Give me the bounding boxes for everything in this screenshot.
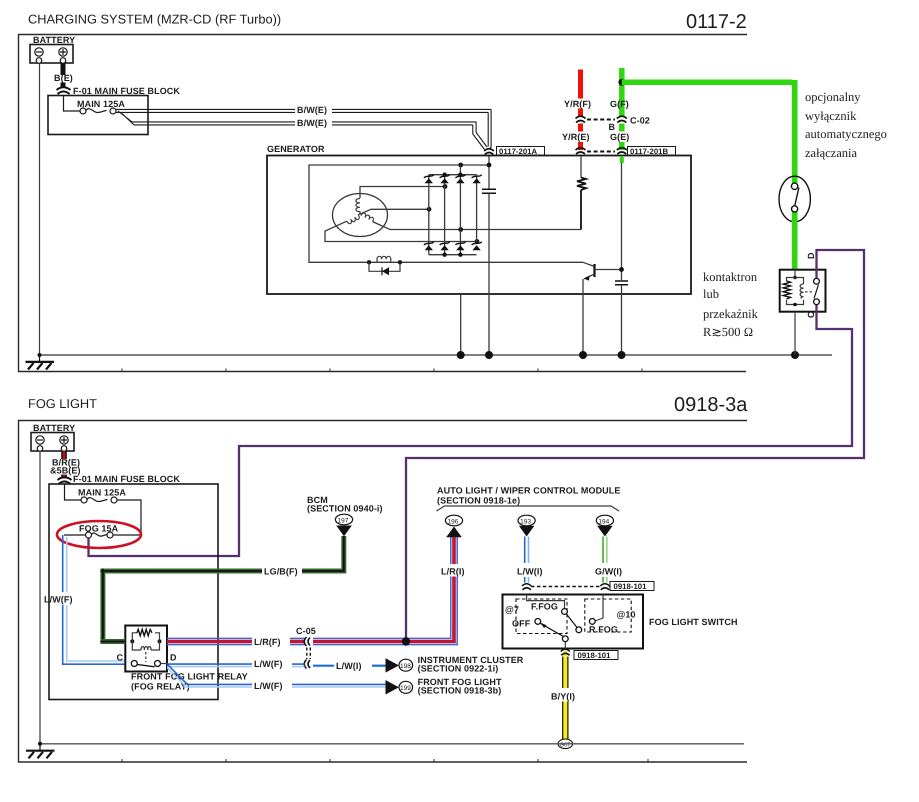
relay coil xyxy=(800,284,803,299)
label box 0117-201A xyxy=(497,147,545,156)
rotor field coil on inner bottom line xyxy=(367,260,371,264)
svg-text:B/W(E): B/W(E) xyxy=(297,118,327,128)
instrument cluster triangle xyxy=(386,658,399,672)
green wire vertical to switch ellipse xyxy=(792,80,798,183)
svg-text:0117-2: 0117-2 xyxy=(686,11,747,33)
fuse block box (fog) xyxy=(49,484,218,700)
svg-text:L/W(I): L/W(I) xyxy=(336,661,362,671)
relay contacts (kontaktron) xyxy=(814,278,820,284)
fog relay box xyxy=(125,626,167,672)
svg-text:(SECTION 0940-i): (SECTION 0940-i) xyxy=(307,504,383,514)
svg-text:193: 193 xyxy=(520,519,531,526)
svg-text:F-01 MAIN FUSE BLOCK: F-01 MAIN FUSE BLOCK xyxy=(73,474,180,484)
wire L/W(F) from relay D to chevron xyxy=(167,663,252,665)
chevron into switch (blue) xyxy=(522,584,531,590)
svg-text:G/W(I): G/W(I) xyxy=(595,567,622,577)
bridge diodes bottom row xyxy=(425,245,481,250)
dashed link C-02 xyxy=(587,119,615,121)
wire B/Y yellow xyxy=(562,657,568,689)
svg-text:@10: @10 xyxy=(617,610,636,620)
ground G07 xyxy=(558,739,573,749)
svg-text:FOG 15A: FOG 15A xyxy=(79,524,119,534)
wire B/W(E) upper turn down to 0117-201A xyxy=(488,109,491,148)
svg-text:MAIN 125A: MAIN 125A xyxy=(78,488,126,498)
relay output wire to ground bus xyxy=(794,312,796,355)
charging section frame xyxy=(19,35,748,372)
svg-text:(FOG RELAY): (FOG RELAY) xyxy=(131,682,190,692)
switch internal wires xyxy=(527,595,565,609)
module connector triangle up 196 xyxy=(446,527,462,538)
fog relay dashed link xyxy=(145,652,147,662)
frame ticks fog xyxy=(122,759,648,762)
svg-text:194: 194 xyxy=(598,519,609,526)
frame ticks charging xyxy=(122,369,642,372)
svg-text:(SECTION 0918-1e): (SECTION 0918-1e) xyxy=(437,496,520,506)
connector chevrons F-01 (fog) xyxy=(58,477,72,484)
svg-text:AUTO LIGHT / WIPER CONTROL MOD: AUTO LIGHT / WIPER CONTROL MODULE xyxy=(437,486,620,496)
switch ellipse (opcjonalny wylacznik) xyxy=(779,176,810,222)
svg-text:D: D xyxy=(806,252,816,259)
yellow chevron connector xyxy=(563,651,567,656)
connector chevron 201B right xyxy=(617,148,627,154)
wire B(E) thick black from battery + xyxy=(61,64,66,76)
stator coil top xyxy=(356,199,360,215)
wire L/W(I) to instrument cluster xyxy=(313,665,334,667)
front fog light triangle xyxy=(386,680,399,694)
wire from FOG fuse left to L/W xyxy=(64,534,86,536)
svg-text:L/R(I): L/R(I) xyxy=(441,567,465,577)
G green wire column xyxy=(619,68,625,117)
svg-text:196: 196 xyxy=(448,519,459,526)
fog relay resistor (horizontal zigzag) xyxy=(137,629,152,635)
G(E) line in generator xyxy=(621,156,623,280)
switch contacts xyxy=(562,609,568,615)
dashed boxes inside switch xyxy=(516,599,567,634)
Y/R red wire column xyxy=(578,70,583,99)
resistor R in generator xyxy=(580,156,582,178)
svg-text:L/W(F): L/W(F) xyxy=(254,659,283,669)
svg-text:199: 199 xyxy=(400,685,411,692)
capacitor C2 xyxy=(615,281,628,285)
battery negative wire down (fog) xyxy=(39,452,41,744)
fog section frame xyxy=(19,421,748,763)
phase wire 1 xyxy=(360,187,445,199)
svg-text:załączania: załączania xyxy=(805,146,857,160)
svg-text:R≳500 Ω: R≳500 Ω xyxy=(703,325,753,339)
chevron on L/W(F) row xyxy=(304,660,310,669)
svg-text:LG/B(F): LG/B(F) xyxy=(264,567,298,577)
relay contact dashes xyxy=(805,291,814,293)
green node dot xyxy=(618,79,625,86)
wire L/R(I) up to module: corner xyxy=(448,537,457,645)
module connector circle 194 xyxy=(596,515,613,526)
stator coil left xyxy=(347,215,360,225)
phase wire 2 xyxy=(360,209,429,214)
label box 0117-201B xyxy=(628,147,676,156)
junction dot purple to L/R xyxy=(402,637,410,645)
svg-text:0918-3a: 0918-3a xyxy=(674,394,748,416)
svg-text:C: C xyxy=(806,311,816,318)
stator coil right xyxy=(361,212,374,222)
svg-text:OFF: OFF xyxy=(512,619,531,629)
green wire horizontal to switch xyxy=(622,80,792,86)
kontaktron relay box xyxy=(780,270,826,312)
relay coil loop xyxy=(787,278,804,305)
wire B/W(E) upper double line xyxy=(116,109,491,112)
stator circle xyxy=(333,194,388,237)
svg-text:opcjonalny: opcjonalny xyxy=(805,90,861,104)
svg-text:B(E): B(E) xyxy=(54,73,73,83)
node: B+ drop into generator xyxy=(488,156,490,189)
svg-text:C: C xyxy=(117,653,124,663)
wire B/R(E) black-red from battery xyxy=(61,452,67,460)
svg-text:automatycznego: automatycznego xyxy=(805,127,887,141)
capacitor C on B+ line xyxy=(482,189,496,193)
svg-text:MAIN 125A: MAIN 125A xyxy=(77,99,125,109)
green wire from switch to relay xyxy=(792,222,798,270)
wires from generator down to ground bus xyxy=(461,293,622,355)
fog relay coil (horizontal arcs) xyxy=(141,647,151,650)
fog relay nodes xyxy=(130,639,134,643)
svg-text:FRONT FOG LIGHT RELAY: FRONT FOG LIGHT RELAY xyxy=(131,672,248,682)
BCM connector circle 197 xyxy=(335,514,352,525)
G(E) stub into generator xyxy=(620,156,624,163)
svg-text:C-02: C-02 xyxy=(630,116,650,126)
svg-text:B/W(E): B/W(E) xyxy=(297,105,327,115)
svg-text:(SECTION 0922-1i): (SECTION 0922-1i) xyxy=(418,664,499,674)
svg-text:D: D xyxy=(170,653,177,663)
svg-text:L/W(F): L/W(F) xyxy=(254,681,283,691)
feed wire into MAIN fuse xyxy=(65,484,82,500)
svg-text:kontaktron: kontaktron xyxy=(703,270,758,284)
svg-text:C-05: C-05 xyxy=(296,626,316,636)
connector chevron C-02 left xyxy=(576,116,586,122)
svg-text:198: 198 xyxy=(400,663,411,670)
svg-text:lub: lub xyxy=(703,287,719,301)
wire L/W(I) double blue down xyxy=(524,537,526,564)
red highlight ellipse around FOG fuse xyxy=(57,521,141,548)
svg-text:@7: @7 xyxy=(505,605,519,615)
wire B/W(E) lower turn down converge xyxy=(473,122,487,150)
rectifier bridge rails xyxy=(429,175,477,255)
fog relay contacts xyxy=(131,661,137,667)
connector chevrons F-01 xyxy=(57,87,71,94)
module brace xyxy=(437,506,620,511)
fog ground bus xyxy=(40,743,744,745)
wire L/W(F) from relay D down to front fog row xyxy=(168,665,252,685)
BCM triangle connector xyxy=(336,526,352,537)
C-05 dashed vertical link xyxy=(307,648,311,660)
phase wire 4 loop xyxy=(325,221,477,241)
svg-text:Y/R(E): Y/R(E) xyxy=(562,132,590,142)
svg-text:G07: G07 xyxy=(560,741,571,748)
wire B/W(E) lower double line xyxy=(118,111,476,125)
fuse MAIN 125A (charging) xyxy=(80,108,86,114)
transistor Q xyxy=(583,262,595,266)
generator inner frame wire xyxy=(309,165,583,262)
wire G/W(I) double green down xyxy=(602,537,604,564)
svg-text:G(F): G(F) xyxy=(610,99,629,109)
connector chevron C-02 right xyxy=(617,116,627,122)
svg-text:G(E): G(E) xyxy=(610,132,629,142)
svg-text:197: 197 xyxy=(338,518,349,525)
svg-text:CHARGING SYSTEM (MZR-CD (RF Tu: CHARGING SYSTEM (MZR-CD (RF Turbo)) xyxy=(28,12,281,27)
ground symbol (charging) xyxy=(39,355,41,362)
purple wire from contact D xyxy=(406,250,864,640)
bridge columns xyxy=(429,165,477,255)
svg-text:B: B xyxy=(609,122,616,132)
node dot B+ top xyxy=(487,163,492,168)
relay internal top node xyxy=(794,270,796,278)
purple wire from contact C xyxy=(89,300,853,557)
svg-text:0918-101: 0918-101 xyxy=(578,651,612,660)
wire MAIN to FOG fuse xyxy=(114,500,142,535)
wire battery feed into fuse xyxy=(64,96,81,112)
module connector circle 193 xyxy=(518,515,535,526)
wire L/R(F) from relay: blue edges + crimson core xyxy=(167,638,252,644)
svg-text:Y/R(F): Y/R(F) xyxy=(564,99,591,109)
svg-text:0918-101: 0918-101 xyxy=(614,582,648,591)
phase wire 3 xyxy=(373,222,581,230)
svg-text:przekaźnik: przekaźnik xyxy=(703,307,759,321)
chevron into switch (green) xyxy=(600,584,609,590)
svg-text:L/W(I): L/W(I) xyxy=(517,567,543,577)
wire LG/B from BCM xyxy=(302,536,344,571)
fuse MAIN 125A (fog) xyxy=(81,497,87,503)
svg-text:FOG LIGHT: FOG LIGHT xyxy=(28,396,97,411)
wire L/W to relay contact C xyxy=(63,605,126,664)
svg-text:GENERATOR: GENERATOR xyxy=(267,144,325,154)
svg-text:0117-201A: 0117-201A xyxy=(499,147,538,156)
relay resistor xyxy=(783,281,790,299)
bridge diodes top row xyxy=(425,178,481,183)
svg-text:L/R(F): L/R(F) xyxy=(254,637,281,647)
svg-text:(SECTION 0918-3b): (SECTION 0918-3b) xyxy=(418,686,502,696)
node dot col3 top xyxy=(458,163,463,168)
svg-text:L/W(F): L/W(F) xyxy=(44,595,73,605)
ground bus (charging) xyxy=(40,354,832,356)
svg-text:F.FOG: F.FOG xyxy=(531,602,558,612)
svg-text:R.FOG: R.FOG xyxy=(589,625,618,635)
rotor diode branch xyxy=(369,262,400,271)
svg-text:B/Y(I): B/Y(I) xyxy=(551,692,575,702)
connector chevron 0117-201A xyxy=(484,149,494,155)
svg-text:F-01 MAIN FUSE BLOCK: F-01 MAIN FUSE BLOCK xyxy=(73,86,180,96)
connector chevron 201B left xyxy=(576,148,586,154)
switch blades xyxy=(566,614,577,628)
dashed connector row + label 0918-101 xyxy=(531,586,600,588)
svg-text:BATTERY: BATTERY xyxy=(33,35,75,45)
switch output down xyxy=(564,642,566,649)
fog relay loop xyxy=(132,633,159,650)
svg-text:0117-201B: 0117-201B xyxy=(630,147,669,156)
dashed link 201B xyxy=(587,151,615,153)
svg-text:wyłącznik: wyłącznik xyxy=(805,109,857,123)
svg-text:BATTERY: BATTERY xyxy=(33,423,75,433)
battery negative wire down xyxy=(39,64,41,356)
fuse block box (charging) xyxy=(48,96,148,135)
ground symbol (fog) xyxy=(39,744,41,751)
wire L/W(F) double blue down left side xyxy=(62,535,64,592)
svg-text:FOG LIGHT SWITCH: FOG LIGHT SWITCH xyxy=(649,617,738,627)
fog light switch box xyxy=(503,595,644,649)
